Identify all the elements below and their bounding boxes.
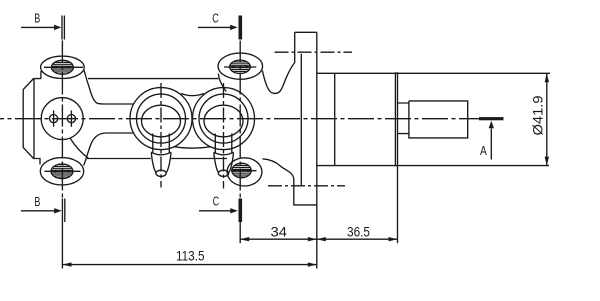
section arrow C top bbox=[198, 26, 231, 28]
flange upper hole centerline bbox=[275, 51, 353, 53]
diameter dimension line bbox=[546, 73, 548, 165]
port 1 inner circle bbox=[142, 105, 181, 137]
nozzle 1 tube bbox=[153, 134, 170, 153]
section arrow C bottom bbox=[199, 210, 232, 212]
svg-text:C: C bbox=[213, 195, 220, 209]
casting bottom edge into flange lower tab bbox=[263, 159, 317, 205]
bottom-left boss thread hatch bbox=[45, 164, 81, 179]
svg-text:113.5: 113.5 bbox=[176, 248, 205, 264]
boss B2 neck left flank down to port 2 bbox=[218, 74, 226, 92]
svg-text:34: 34 bbox=[271, 224, 288, 240]
left end cap outline bbox=[23, 79, 41, 165]
web fillet between ports bottom bbox=[175, 147, 211, 148]
svg-text:B: B bbox=[34, 12, 40, 26]
nozzle 2 bullet bbox=[214, 153, 234, 173]
centerline port 1 vertical bbox=[160, 83, 162, 188]
web fillet between ports top bbox=[181, 94, 204, 96]
section mark B top (double line) bbox=[62, 16, 64, 40]
pushrod end cylinder bbox=[409, 101, 468, 138]
svg-text:Ø41.9: Ø41.9 bbox=[531, 96, 546, 136]
small hole tick right bbox=[70, 110, 72, 126]
boss B1 right flank and fillet into step line bbox=[84, 70, 134, 104]
pushrod step bbox=[398, 103, 409, 134]
left end cap joint line bbox=[33, 79, 35, 159]
bottom-right boss thread hatch bbox=[230, 163, 257, 178]
extension line barrel end bbox=[397, 166, 399, 243]
body bottom edge middle segment bbox=[171, 158, 227, 160]
bore small hole left bbox=[50, 115, 58, 123]
svg-text:B: B bbox=[34, 195, 40, 209]
bore circle left section bbox=[41, 98, 83, 140]
boss B1 left flank bbox=[40, 71, 42, 79]
boss B2 thread hatch bbox=[224, 60, 256, 74]
section arrow B bottom bbox=[21, 210, 55, 212]
svg-text:A: A bbox=[480, 144, 487, 158]
dimension line 113.5 bbox=[63, 264, 317, 266]
body bottom edge left segment bbox=[87, 158, 151, 160]
reservoir boss B1 top-left outer ellipse bbox=[41, 56, 85, 78]
section mark C bottom bbox=[239, 199, 243, 223]
nozzle 1 bullet bbox=[151, 153, 171, 173]
section arrow B top bbox=[21, 26, 55, 28]
bottom-left mounting boss outer ellipse bbox=[40, 158, 83, 185]
section A arrow bbox=[490, 129, 492, 160]
svg-text:C: C bbox=[212, 11, 219, 25]
centerline section C vertical bbox=[239, 41, 241, 199]
section A thick bar bbox=[479, 117, 504, 120]
port 1 middle circle bbox=[137, 94, 186, 143]
nozzle 1 tip ellipse bbox=[156, 170, 166, 176]
nozzle 1 rim bbox=[151, 152, 171, 155]
section mark C top (thick bar) bbox=[239, 16, 243, 40]
svg-text:36.5: 36.5 bbox=[347, 224, 370, 240]
nozzle 2 tip ellipse bbox=[218, 170, 228, 176]
flange right edge bbox=[316, 32, 318, 205]
section mark B bottom bbox=[62, 198, 64, 268]
barrel top edge with extension to diameter dim bbox=[317, 72, 550, 74]
dimension line 34 / 36.5 bbox=[240, 238, 397, 240]
bottom-right outlet boss outer ellipse bbox=[227, 158, 262, 186]
boss B2 right flank, valley and flange tab left edge bbox=[262, 32, 294, 93]
barrel right end double line bbox=[395, 72, 397, 166]
small hole tick left bbox=[53, 110, 55, 126]
extension line C to dim bbox=[239, 222, 241, 243]
bore small hole right bbox=[67, 115, 75, 123]
port 2 middle circle bbox=[199, 94, 248, 143]
port 1 outer circle bbox=[130, 88, 192, 150]
boss B1 thread hatch bbox=[44, 60, 83, 74]
reservoir boss B2 top-right outer ellipse bbox=[218, 53, 263, 79]
centerline port 2 vertical bbox=[223, 83, 225, 189]
flange top tab bbox=[295, 31, 317, 33]
main horizontal centerline bbox=[0, 118, 479, 120]
nozzle 2 tube bbox=[215, 134, 232, 153]
flange lower hole centerline bbox=[268, 185, 345, 187]
bottom-left boss neck S-curve to lower step line bbox=[84, 133, 134, 166]
barrel inner step line bbox=[334, 73, 336, 165]
flange inner face line bbox=[300, 54, 302, 186]
nozzle 2 rim bbox=[214, 152, 234, 155]
port 2 outer circle bbox=[193, 88, 255, 150]
web arc from bore circle to bottom-left boss bbox=[70, 138, 89, 159]
extension line flange face bbox=[316, 205, 318, 269]
centerline boss B1 vertical bbox=[61, 41, 63, 199]
body top edge bbox=[88, 78, 218, 80]
port 2 inner circle bbox=[204, 105, 243, 137]
barrel bottom edge with extension bbox=[317, 165, 549, 167]
